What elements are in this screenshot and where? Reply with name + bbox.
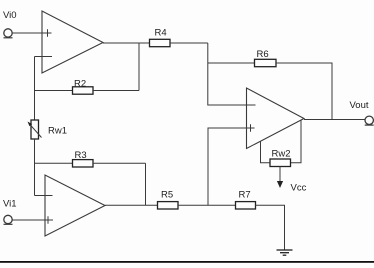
resistor R4 <box>150 39 171 46</box>
wire Vi1 to op-amp U2 + input <box>13 219 54 221</box>
terminal Vi0 <box>4 29 13 38</box>
potentiometer Rw2 <box>270 159 291 167</box>
wire R5 right <box>178 204 236 206</box>
resistor R3 <box>73 160 94 167</box>
bottom border line <box>0 261 374 263</box>
wire R2 right <box>93 90 139 92</box>
op-amp U2 <box>45 175 105 236</box>
wire Vi0 to op-amp U1 + input <box>13 32 52 34</box>
wire U2 output <box>105 204 158 206</box>
svg-text:R7: R7 <box>239 190 251 201</box>
svg-text:Rw2: Rw2 <box>272 149 291 160</box>
wire up to U3 + input <box>208 128 247 205</box>
wire R2 feedback up to U1 output <box>138 43 140 91</box>
wire U3 output to Vout <box>304 119 365 121</box>
svg-text:R6: R6 <box>257 49 269 60</box>
wire U1 output <box>103 42 150 44</box>
wire R3 right <box>93 162 146 164</box>
wire Rw2 right leg to U3 output <box>291 121 302 163</box>
ground <box>277 250 293 255</box>
svg-text:R5: R5 <box>161 190 173 201</box>
potentiometer Rw1 <box>28 120 42 139</box>
resistor R6 <box>255 59 277 66</box>
wire U1 inverting node down to Rw1 top <box>34 57 36 121</box>
resistor R7 <box>236 202 256 209</box>
resistor R5 <box>158 202 179 209</box>
op-amp U2 plus marker <box>47 216 49 224</box>
wire down to U3 - input <box>208 43 247 105</box>
op-amp U3 plus marker <box>250 124 252 132</box>
wire R7 right to ground <box>256 205 285 249</box>
wire Rw1 bottom down to U2 - input <box>34 139 36 196</box>
svg-text:Rw1: Rw1 <box>48 126 67 137</box>
wire R3 left <box>35 162 73 164</box>
wire R6 left <box>208 62 255 64</box>
wire U2 - input <box>35 195 53 197</box>
wire Rw2 left leg to U3 lower edge <box>261 142 271 163</box>
svg-text:Vi1: Vi1 <box>3 199 17 210</box>
wire R6 right and down to output <box>276 63 332 120</box>
wire U3 + bar inside <box>247 127 255 129</box>
wire R4 right <box>170 42 208 44</box>
terminal Vi1 <box>4 215 13 224</box>
svg-text:Vi0: Vi0 <box>3 10 17 21</box>
power Vcc arrow <box>277 167 283 189</box>
svg-text:Vcc: Vcc <box>291 183 307 194</box>
resistor R2 <box>73 87 94 94</box>
svg-text:R4: R4 <box>155 28 167 39</box>
svg-text:Vout: Vout <box>350 100 369 111</box>
op-amp U1 <box>42 11 103 73</box>
terminal Vout <box>365 116 374 125</box>
wire R3 feedback down to U2 output <box>145 163 147 205</box>
wire R2 left <box>35 90 73 92</box>
wire U1 - input <box>35 56 53 58</box>
wire U3 - bar inside <box>247 104 256 106</box>
op-amp U1 plus marker <box>47 29 49 37</box>
op-amp U3 <box>247 88 305 149</box>
